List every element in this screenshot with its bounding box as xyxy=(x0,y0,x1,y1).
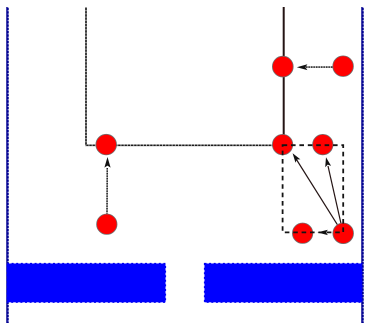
node E (red disc at path junction, rect corner) xyxy=(272,134,292,154)
solid arrow H to E xyxy=(293,153,338,224)
node C (red disc on solid line) xyxy=(272,56,293,77)
node H (red disc at rect bottom-right corner) xyxy=(333,223,354,244)
dotted arrow from B up to A xyxy=(104,157,110,214)
node G (red disc on rect bottom edge) xyxy=(292,223,312,243)
left wall dotted navy line xyxy=(6,7,9,323)
node A (red disc on corner path) xyxy=(96,134,117,155)
right blue obstacle bar xyxy=(205,264,363,303)
right wall dotted navy line xyxy=(361,7,364,323)
solid arrow H to F xyxy=(325,157,341,223)
dashed arrow head from H to G (on rect bottom edge) xyxy=(317,230,327,235)
dotted arrow from D left to C xyxy=(297,64,333,70)
node D (red disc near right wall) xyxy=(333,56,354,77)
node B (red disc below A) xyxy=(97,214,117,234)
dashed region rectangle (drawn over nodes) xyxy=(283,145,344,232)
solid vertical path line xyxy=(283,7,285,145)
left blue obstacle bar xyxy=(7,264,166,303)
node F (red disc on rect top edge) xyxy=(313,134,333,154)
dashed path polyline (corner path) xyxy=(86,7,283,145)
